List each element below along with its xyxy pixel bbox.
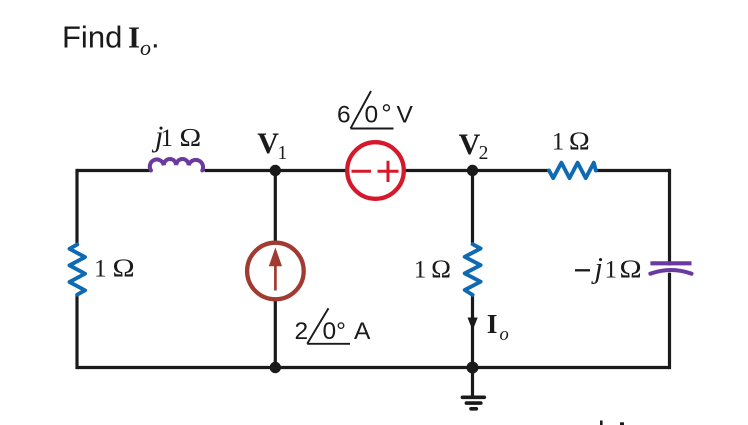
label 6 angle 0 V <box>337 91 414 129</box>
label 2 angle 0 A <box>295 308 372 345</box>
svg-text:V: V <box>397 102 414 129</box>
wire V2 branch upper (node V2 down to resistor) <box>471 171 474 245</box>
node V1 <box>270 165 281 176</box>
svg-text:o: o <box>500 325 509 345</box>
svg-text:1: 1 <box>414 256 427 283</box>
inductor j1 ohm <box>150 159 203 170</box>
svg-text:o: o <box>140 35 151 60</box>
wire top rail right segment to corner <box>597 169 670 172</box>
label V2 <box>459 128 489 164</box>
node bottom left (under current source) <box>270 362 281 373</box>
label -j1 ohm <box>575 252 642 285</box>
svg-text:A: A <box>354 318 371 345</box>
label j1 ohm <box>151 120 202 153</box>
svg-text:6: 6 <box>337 102 351 129</box>
resistor 1 ohm top right (horizontal) <box>549 163 596 178</box>
voltage source 6/0 V (red circle with - +) <box>347 142 404 199</box>
wire right rail (top corner to bottom corner) <box>668 169 671 369</box>
svg-text:0: 0 <box>365 102 379 129</box>
svg-text:2: 2 <box>479 143 489 164</box>
svg-text:Ω: Ω <box>112 254 135 283</box>
current source 2/0 A (brick circle with up arrow) <box>247 243 304 300</box>
svg-text:V: V <box>459 128 481 161</box>
svg-text:I: I <box>487 308 498 339</box>
wire left rail lower (resistor to bottom corner) <box>75 295 78 369</box>
wire bottom rail <box>77 366 670 369</box>
capacitor -j1 ohm <box>650 263 691 273</box>
svg-text:Find: Find <box>62 20 122 55</box>
svg-text:°: ° <box>381 99 391 129</box>
resistor 1 ohm left rail (vertical) <box>70 245 86 295</box>
svg-text:2: 2 <box>295 318 309 345</box>
svg-text:1: 1 <box>94 256 107 283</box>
svg-text:1: 1 <box>278 143 288 164</box>
svg-text:Ω: Ω <box>569 127 591 156</box>
wire top rail between inductor and voltage source (through node V1) <box>205 169 348 172</box>
node bottom right (under Io branch) <box>467 362 479 374</box>
svg-text:.: . <box>151 20 160 55</box>
node V2 <box>467 165 478 176</box>
ground <box>462 368 484 409</box>
resistor 1 ohm middle (vertical, Io branch) <box>465 244 481 295</box>
svg-text:V: V <box>257 127 279 160</box>
label Io <box>487 308 509 345</box>
wire top rail left segment <box>77 169 151 172</box>
cropped text fragment bottom right <box>600 421 624 425</box>
wire V1 branch upper (node V1 down to current source) <box>274 171 277 244</box>
label V1 <box>257 127 287 164</box>
wire left rail upper (corner to resistor) <box>75 169 78 245</box>
arrow Io (down arrowhead on V2 branch) <box>468 318 478 331</box>
svg-text:I: I <box>128 20 140 55</box>
svg-text:1: 1 <box>552 129 565 156</box>
wire V1 branch lower (current source down to bottom rail) <box>274 299 277 368</box>
wire top rail between voltage source and resistor (through node V2) <box>404 169 549 172</box>
wire V2 branch lower (resistor to bottom rail, carries Io arrow) <box>471 295 474 368</box>
title text "Find Io." <box>62 20 160 61</box>
svg-text:Ω: Ω <box>431 254 452 283</box>
svg-text:1: 1 <box>605 257 618 284</box>
svg-text:1: 1 <box>161 125 174 152</box>
svg-text:Ω: Ω <box>179 123 202 152</box>
svg-text:0°: 0° <box>323 318 346 345</box>
svg-text:Ω: Ω <box>619 255 642 284</box>
